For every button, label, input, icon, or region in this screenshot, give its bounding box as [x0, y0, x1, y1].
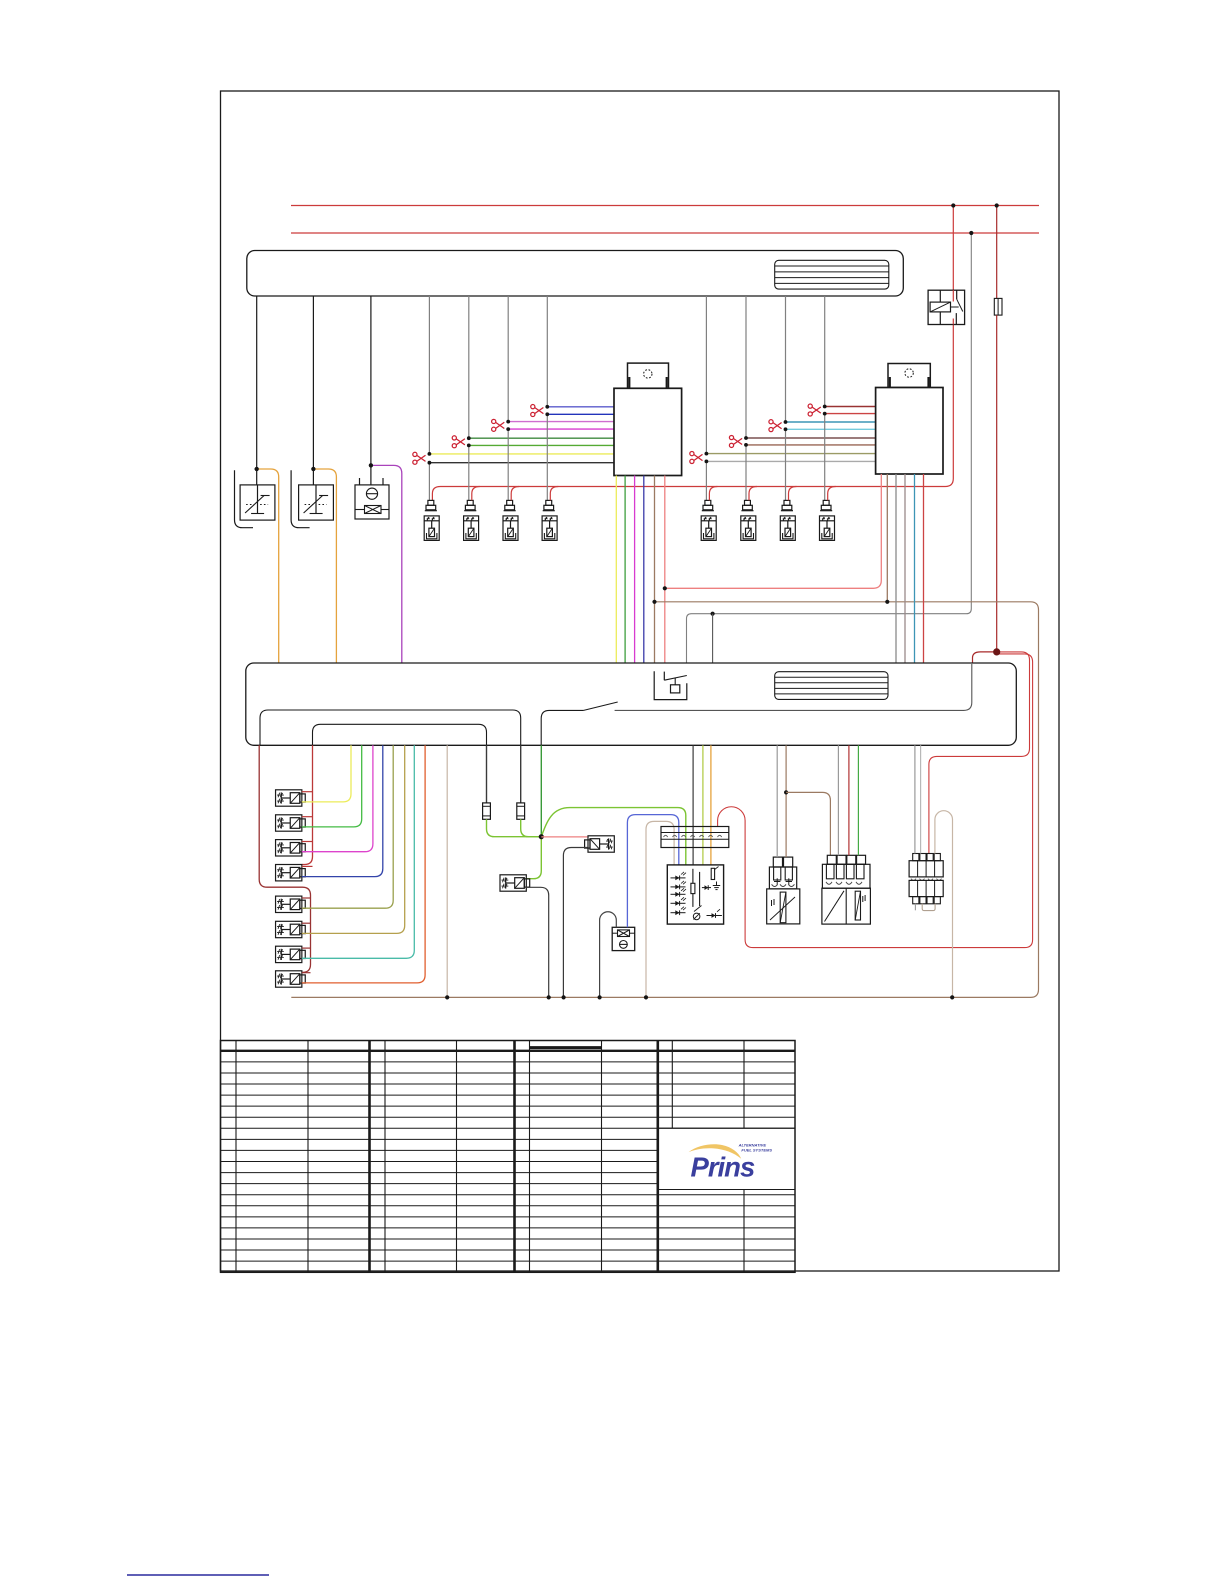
node cut upper x=785.5 [784, 420, 788, 424]
wire brown branch to connector B [786, 792, 830, 855]
wire emulator tap lower at x=706.4 [706, 460, 875, 462]
pressure sensor P1 [612, 927, 635, 950]
wire pink junction to valve 2 [541, 836, 587, 838]
node on +12V rail at relay feed [951, 203, 955, 207]
node cut upper x=706.4 [705, 452, 709, 456]
wire purple from MAP sensor to LPG ECU [371, 465, 402, 663]
fuel level sender symbol inside LPG ECU [654, 671, 687, 699]
node MAP sensor tap (top) [369, 463, 373, 467]
wire U1 pin x=643.8 to LPG ECU [643, 476, 645, 664]
node cut upper x=824.7 [823, 405, 827, 409]
wire petrol injector 785.5 upper (grey, cut) [785, 296, 787, 422]
wire black to fuse at x=486.5 [486, 745, 488, 803]
wire U1 pin x=616.3 to LPG ECU [615, 476, 617, 664]
petrol injector plug 2 [464, 500, 479, 540]
node sensor 2 tap (top) [311, 467, 315, 471]
wire red feed to LPG injectors 1-4 [302, 745, 313, 864]
wire orange from sensor 1 to LPG ECU [257, 469, 279, 663]
wire emulator tap upper at x=706.4 [706, 453, 875, 455]
wire coolant temp sensor 2 (black) [312, 296, 314, 514]
scissors cut mark at x=785.5 [769, 420, 782, 432]
wire brown link U2 to ground run [291, 602, 1038, 998]
wire grey signal stub to LPG ECU [712, 614, 714, 663]
wire loop under connector C [922, 904, 935, 911]
wire light green junction to lockoff valve [526, 837, 542, 879]
scissors cut mark at x=547.3 [531, 405, 544, 417]
wire emulator tap upper at x=746.0 [746, 437, 876, 439]
petrol injector plug 1 [424, 500, 439, 540]
wire petrol injector 468.8 upper (grey, cut) [468, 296, 470, 438]
node cut upper x=429.4 [428, 452, 432, 456]
node on grey signal wire [711, 612, 715, 616]
relay K1 [928, 290, 965, 324]
wire red stub LPG injector 4 [302, 865, 313, 867]
wire emulator tap upper at x=824.7 [825, 406, 876, 408]
node cut upper x=547.3 [545, 405, 549, 409]
node on +12V rail at fuse feed [995, 203, 999, 207]
wire grey stub under connector C [914, 904, 916, 911]
wire emulator tap lower at x=547.3 [547, 413, 614, 415]
wire light green from fuse 1 to junction [487, 819, 542, 836]
node MAP sensor tap [369, 463, 373, 467]
fuse at x=486.5 [483, 803, 491, 819]
wire red branch into LPG ECU [973, 652, 997, 663]
petrol injector plug 6 [741, 500, 756, 540]
node brown link right [885, 600, 889, 604]
wire emulator tap lower at x=824.7 [825, 413, 876, 415]
wire black to fuse at x=520.7 [520, 745, 522, 803]
wire U1 pin x=664.8 to LPG ECU [664, 476, 666, 664]
wire red stub LPG injector 1 [302, 791, 313, 793]
wire red feed elbow injector 4 [550, 487, 558, 501]
wire light green from fuse 2 to junction [521, 819, 542, 836]
wire signal LPG injector 7 [302, 745, 415, 958]
injector emulator module U2 (right bank) [888, 364, 930, 388]
wire green from LPG ECU to junction [540, 745, 542, 836]
wire red branch to ignition coil connector [929, 652, 1030, 854]
petrol injector plug 5 [701, 500, 716, 540]
wire U1 pin x=625.1 to LPG ECU [624, 476, 626, 664]
wire black LPG ECU to switchbox [692, 745, 694, 865]
LPG injector connector 1 [276, 790, 306, 806]
wire red stub LPG injector 8 [302, 972, 311, 974]
node brown branch [784, 790, 788, 794]
wire 12V supply (red) from rail to fuse F1 [996, 206, 998, 299]
petrol injector plug 4 [542, 500, 557, 540]
wire emulator tap lower at x=468.8 [469, 444, 614, 446]
wire petrol injector 547.3 lower (grey, cut) [546, 414, 548, 500]
scissors cut mark at x=508.2 [492, 419, 505, 431]
wire MAP sensor (black) [370, 296, 372, 493]
node cut lower x=746.0 [744, 443, 748, 447]
node cut lower x=706.4 [705, 460, 709, 464]
MAP sensor B3 box [355, 485, 389, 519]
node red distribution junction [993, 648, 1000, 655]
connector symbol on LPG ECU [775, 672, 888, 700]
node pink link [663, 586, 667, 590]
internal switch feed arc 3 (inside LPG ECU) [541, 710, 583, 745]
wire V2 ground [563, 848, 587, 998]
node cut lower x=508.2 [506, 427, 510, 431]
wire red branch to switch loom [718, 654, 1033, 948]
wire tan hook from connector C to ground run [935, 811, 953, 998]
wire petrol injector 785.5 lower (grey, cut) [785, 429, 787, 500]
wire signal LPG injector 4 [302, 745, 383, 876]
wire U2 pin x=923.5 to LPG ECU [923, 474, 925, 663]
internal switch contact to supply [615, 664, 972, 710]
reducer / evaporator connector B [827, 855, 836, 864]
wire petrol injector 746.0 lower (grey, cut) [745, 445, 747, 501]
sensor B2 shield bracket [291, 470, 310, 528]
LPG injector connector 6 [276, 921, 306, 937]
LPG injector connector 8 [276, 971, 306, 987]
node cut lower x=785.5 [784, 427, 788, 431]
wire petrol injector 746.0 upper (grey, cut) [745, 296, 747, 438]
wire yellow-green LPG ECU to switchbox [702, 745, 704, 865]
connector symbol on bus X1 [775, 260, 889, 289]
petrol injector plug 3 [503, 500, 518, 540]
wire signal LPG injector 6 [302, 745, 405, 933]
inline connector strip (switch loom) [661, 827, 729, 848]
wire grey to connector B [837, 745, 839, 855]
node cut upper x=746.0 [744, 436, 748, 440]
scissors cut mark at x=706.4 [690, 452, 703, 464]
tank valve V2 [585, 836, 615, 852]
petrol injector plug 7 [780, 500, 795, 540]
wire green to connector B [857, 745, 859, 855]
wire red feed elbow injector 2 [472, 487, 480, 501]
wire emulator tap lower at x=785.5 [786, 428, 876, 430]
wire signal LPG injector 8 [302, 745, 425, 983]
sensor B1 shield bracket [235, 470, 254, 528]
wire light green junction to switch loom [541, 808, 686, 865]
wire orange LPG ECU to switchbox [710, 745, 712, 865]
wire signal LPG injector 5 [302, 745, 393, 908]
scissors cut mark at x=746.0 [729, 435, 742, 447]
ignition feed connector C [913, 854, 919, 861]
wire petrol injector 508.2 lower (grey, cut) [507, 429, 509, 500]
wire red feed elbow injector 8 [828, 487, 836, 501]
wire coolant temp sensor 1 (black) [256, 296, 258, 514]
wire brown to connector A [785, 745, 787, 857]
petrol ECU harness bus X1 [247, 251, 904, 297]
wire red stub LPG injector 3 [302, 841, 313, 843]
svg-text:Prins: Prins [691, 1152, 755, 1183]
wire red feed elbow injector 6 [749, 487, 757, 501]
title block parts table [221, 1041, 796, 1273]
node sensor 2 tap [311, 467, 315, 471]
LPG injector connector 2 [276, 815, 306, 831]
wire emulator tap upper at x=429.4 [429, 453, 614, 455]
fuel selector switchbox S1 [667, 865, 723, 924]
LPG ECU (AFC) bus [246, 663, 1017, 745]
wire V1 ground [526, 887, 549, 997]
wire signal LPG injector 3 [302, 745, 373, 851]
wire emulator tap upper at x=508.2 [508, 421, 614, 423]
wire pink link U1-U2 [665, 474, 882, 588]
temperature sensor B1 box [240, 485, 275, 520]
wire emulator tap upper at x=547.3 [547, 406, 614, 408]
wire pressure sensor ground hook [600, 912, 617, 998]
fuse at x=520.7 [517, 803, 525, 819]
wire grey 1 to connector C [914, 745, 916, 853]
node on ignition rail [969, 231, 973, 235]
wire U1 pin x=654.5 to LPG ECU [654, 476, 656, 664]
LPG injector connector 5 [276, 896, 306, 912]
wire signal LPG injector 1 [302, 745, 351, 802]
scissors cut mark at x=468.8 [452, 436, 465, 448]
Prins logo [689, 1144, 742, 1159]
wire red stub LPG injector 2 [302, 816, 313, 818]
wire orange from sensor 2 to LPG ECU [313, 469, 336, 663]
temperature sender connector A [773, 857, 782, 867]
wire grey 2 to connector C [920, 745, 922, 853]
internal link arc 1 (inside LPG ECU) [260, 710, 521, 745]
wire petrol injector 429.4 upper (grey, cut) [428, 296, 430, 454]
wire petrol injector 824.7 upper (grey, cut) [824, 296, 826, 407]
wire brown U2 pin drop [886, 474, 888, 602]
internal link arc 2 (inside LPG ECU) [313, 724, 487, 745]
LPG injector connector 7 [276, 946, 306, 962]
wire U2 pin x=914.5 to LPG ECU [914, 474, 916, 663]
fuse F1 [994, 298, 1002, 315]
wire emulator tap lower at x=746.0 [746, 444, 876, 446]
wire U2 pin x=905.0 to LPG ECU [904, 474, 906, 663]
LPG injector connector 4 [276, 865, 306, 881]
wire dark red to connector B [848, 745, 850, 855]
LPG injector connector 3 [276, 840, 306, 856]
wire petrol injector 508.2 upper (grey, cut) [507, 296, 509, 422]
node cut lower x=824.7 [823, 412, 827, 416]
wire U1 pin x=634.6 to LPG ECU [634, 476, 636, 664]
wire +12V battery rail (red, top) [291, 205, 1039, 207]
node cut upper x=508.2 [506, 420, 510, 424]
wire red feed elbow injector 5 [709, 487, 717, 501]
node sensor 1 tap (top) [255, 467, 259, 471]
wire maroon feed to LPG injectors 5-8 [259, 745, 310, 972]
node V1 ground [547, 995, 551, 999]
wire U2 pin x=896.0 to LPG ECU [895, 474, 897, 663]
svg-text:FUEL SYSTEMS: FUEL SYSTEMS [741, 1147, 772, 1152]
wire signal LPG injector 2 [302, 745, 362, 827]
node tan-ground [445, 995, 449, 999]
injector emulator module U1 (left bank) [628, 363, 669, 388]
node cut lower x=429.4 [428, 461, 432, 465]
scissors cut mark at x=824.7 [808, 404, 821, 416]
node cut upper x=468.8 [467, 436, 471, 440]
wire petrol injector 547.3 upper (grey, cut) [546, 296, 548, 407]
wire tan ground run to switchbox [646, 821, 674, 997]
wire petrol injector 468.8 lower (grey, cut) [468, 445, 470, 500]
wire ignition rail (red, second) [291, 232, 1039, 234]
node green junction [539, 834, 544, 839]
wire 12V supply (red) from rail to relay and injector feed [432, 206, 953, 501]
drawing border frame [221, 91, 1060, 1271]
lockoff valve V1 [500, 875, 530, 891]
temperature sensor B2 box [299, 485, 334, 520]
node tan-switch ground [644, 995, 648, 999]
wire emulator tap upper at x=468.8 [469, 437, 614, 439]
node sensor 1 tap [255, 467, 259, 471]
node V2 ground [562, 995, 566, 999]
wire emulator tap upper at x=785.5 [786, 421, 876, 423]
node brown link left [652, 600, 656, 604]
wire red feed elbow injector 7 [789, 487, 797, 501]
wire petrol injector 429.4 lower (grey, cut) [428, 463, 430, 501]
node tan hook ground [950, 995, 954, 999]
scissors cut mark at x=429.4 [413, 452, 426, 464]
wire grey to connector A [776, 745, 778, 857]
wire red stub LPG injector 5 [302, 897, 311, 899]
wire red from fuse F1 down to junction [996, 315, 998, 652]
wire red stub LPG injector 6 [302, 922, 311, 924]
wire red stub LPG injector 7 [302, 947, 311, 949]
petrol injector plug 8 [820, 500, 835, 540]
wire switched signal (grey) from ignition rail [687, 233, 972, 663]
node cut lower x=547.3 [545, 412, 549, 416]
node sensor ground [598, 995, 602, 999]
internal switch blade [584, 702, 618, 710]
wire emulator tap lower at x=508.2 [508, 428, 614, 430]
wire petrol injector 706.4 lower (grey, cut) [705, 461, 707, 500]
wire blue pressure sensor to switch loom [627, 815, 678, 928]
node cut lower x=468.8 [467, 444, 471, 448]
footer rule (blue) [127, 1574, 269, 1576]
wire petrol injector 824.7 lower (grey, cut) [824, 414, 826, 501]
wire tan from LPG ECU to ground run [446, 745, 448, 997]
wire red feed elbow injector 3 [511, 487, 519, 501]
wire petrol injector 706.4 upper (grey, cut) [705, 296, 707, 454]
wire emulator tap lower at x=429.4 [429, 462, 614, 464]
